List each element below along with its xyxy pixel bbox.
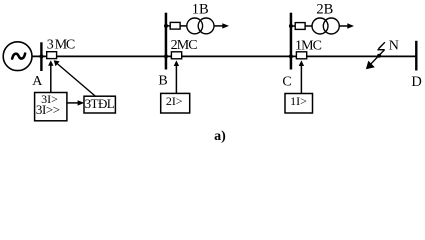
svg-text:1B: 1B xyxy=(192,1,209,17)
svg-text:3TĐL: 3TĐL xyxy=(85,96,115,111)
svg-text:B: B xyxy=(158,74,167,89)
svg-text:2B: 2B xyxy=(316,1,333,17)
svg-text:C: C xyxy=(282,74,291,89)
svg-text:D: D xyxy=(411,74,421,90)
svg-text:1MC: 1MC xyxy=(295,38,322,53)
svg-text:3I>>: 3I>> xyxy=(36,102,60,117)
svg-text:3 MC: 3 MC xyxy=(47,38,75,53)
svg-text:A: A xyxy=(32,74,43,89)
svg-text:N: N xyxy=(389,39,399,54)
svg-text:2MC: 2MC xyxy=(171,38,198,53)
svg-text:2I>: 2I> xyxy=(166,94,183,108)
svg-text:a): a) xyxy=(214,129,226,144)
svg-text:1I>: 1I> xyxy=(290,94,307,108)
